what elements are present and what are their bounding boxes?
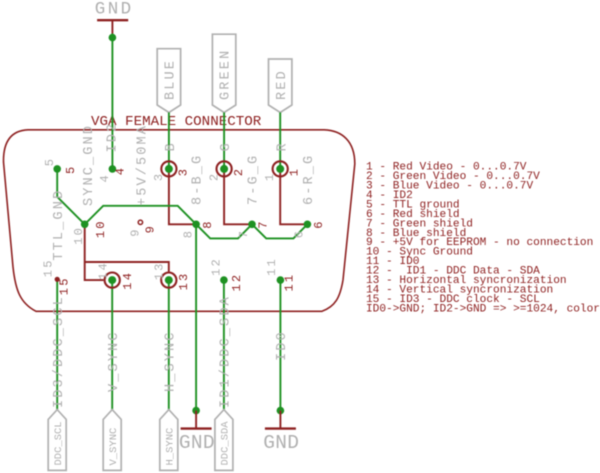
svg-text:14: 14 <box>96 261 110 280</box>
svg-text:B: B <box>164 141 179 151</box>
net flag label H_SYNC <box>160 410 178 471</box>
net flag label DDC_SCL <box>48 410 66 471</box>
svg-text:H_SYNC: H_SYNC <box>164 428 176 466</box>
svg-text:8: 8 <box>181 229 195 238</box>
pin 2 socket ring <box>220 165 228 173</box>
svg-text:GREEN: GREEN <box>219 49 234 100</box>
wire net R from RED flag to pin 1 <box>279 113 281 169</box>
junction pin 7 <box>248 221 256 229</box>
svg-text:G: G <box>219 141 234 151</box>
junction pin 8 <box>192 221 200 229</box>
net flag label GREEN <box>212 34 235 112</box>
svg-text:ID3/DDC_SCL: ID3/DDC_SCL <box>52 295 67 408</box>
junction at left bottom GND <box>192 407 200 415</box>
ground symbol GND (bottom right) <box>279 411 281 429</box>
svg-text:2: 2 <box>208 172 222 181</box>
svg-text:3: 3 <box>177 167 191 176</box>
symbol bus wire pin 10 to pins 14 and 13 <box>85 224 104 280</box>
svg-text:ID0->GND; ID2->GND => >=1024,: ID0->GND; ID2->GND => >=1024, color <box>366 303 600 315</box>
junction pin 10 <box>81 221 89 229</box>
svg-text:13: 13 <box>153 261 167 280</box>
svg-text:RED: RED <box>275 69 290 100</box>
svg-text:15: 15 <box>42 258 56 277</box>
svg-text:1: 1 <box>263 172 277 181</box>
wire shield run pin 7 to pin 6 <box>252 224 307 238</box>
svg-text:ID0: ID0 <box>275 330 290 361</box>
wire net TTL_GND pin 5 to pin 10 <box>57 169 84 224</box>
svg-text:15: 15 <box>57 276 71 295</box>
svg-text:11: 11 <box>283 273 297 292</box>
svg-text:ID2: ID2 <box>106 122 121 153</box>
svg-text:6-R_G: 6-R_G <box>302 154 317 205</box>
junction at right bottom GND <box>277 407 285 415</box>
net flag label V_SYNC <box>103 410 121 471</box>
svg-text:1: 1 <box>288 167 302 176</box>
svg-text:GND: GND <box>179 432 215 454</box>
svg-text:7: 7 <box>237 229 251 238</box>
svg-text:TTL_GND: TTL_GND <box>52 189 67 261</box>
junction pin 4 <box>109 165 117 173</box>
wire net G from GREEN flag to pin 2 <box>223 113 225 169</box>
svg-text:5: 5 <box>64 165 78 174</box>
wire net SYNC_GND from top GND to pin 4 <box>111 34 113 169</box>
wire net ID0 pin 11 to bottom GND <box>279 280 281 411</box>
svg-text:DDC_SCL: DDC_SCL <box>53 421 65 465</box>
ground symbol GND (bottom left) <box>195 411 197 429</box>
svg-text:4: 4 <box>98 173 112 182</box>
pin description legend text block <box>366 162 600 316</box>
pin 3 socket ring <box>165 165 173 173</box>
net flag label BLUE <box>157 49 180 113</box>
junction pin 5 <box>53 165 61 173</box>
svg-text:ID1/DDC_SDA: ID1/DDC_SDA <box>219 295 234 408</box>
pin 13 socket ring <box>165 276 173 284</box>
svg-text:10: 10 <box>72 226 86 245</box>
net flag label DDC_SDA <box>215 410 233 471</box>
svg-text:7: 7 <box>257 219 271 228</box>
svg-text:9: 9 <box>129 227 143 236</box>
svg-text:6: 6 <box>293 229 307 238</box>
connector body outline (VGA female DB15 shell) <box>3 130 354 311</box>
svg-text:10: 10 <box>94 219 108 238</box>
svg-text:8: 8 <box>201 219 215 228</box>
wire sync-ground run pin 10 to pin 8 <box>85 206 196 225</box>
svg-text:14: 14 <box>121 271 135 290</box>
svg-text:3: 3 <box>152 172 166 181</box>
pin 9 open connection point <box>138 220 142 224</box>
wire net ID3/DDC_SCL pin 15 to DDC_SCL flag <box>56 280 58 410</box>
svg-text:V_SYNC: V_SYNC <box>107 330 122 392</box>
svg-text:2: 2 <box>232 167 246 176</box>
svg-text:SYNC_GND: SYNC_GND <box>82 124 97 206</box>
svg-text:+5V/50MA: +5V/50MA <box>135 124 150 206</box>
svg-text:12: 12 <box>230 273 244 292</box>
symbol wire pin 3 shield to pin 8 <box>169 169 196 224</box>
svg-text:BLUE: BLUE <box>164 59 179 100</box>
svg-text:H_SYNC: H_SYNC <box>163 330 178 392</box>
wire net H_SYNC pin 13 to H_SYNC flag <box>168 280 170 410</box>
svg-text:V_SYNC: V_SYNC <box>108 428 120 466</box>
wire pin 8 down to bottom GND <box>195 224 197 410</box>
svg-text:R: R <box>275 141 290 151</box>
svg-text:12: 12 <box>210 257 224 276</box>
junction pin 6 <box>304 221 312 229</box>
wire shield run pin 8 to pin 7 <box>196 224 252 238</box>
svg-text:9: 9 <box>144 224 158 233</box>
wire net B from BLUE flag to pin 3 <box>168 113 170 169</box>
svg-text:GND: GND <box>95 0 134 20</box>
pin 14 socket ring <box>108 276 116 284</box>
svg-text:4: 4 <box>114 166 128 175</box>
svg-text:DDC_SDA: DDC_SDA <box>220 421 232 466</box>
pin 1 socket ring <box>276 165 284 173</box>
svg-text:5: 5 <box>43 157 57 166</box>
junction pin 11 <box>277 276 285 284</box>
svg-text:6: 6 <box>312 219 326 228</box>
ground symbol GND (top) <box>97 19 128 21</box>
symbol wire pin 2 shield to pin 7 <box>224 169 252 224</box>
junction pin 12 <box>220 276 228 284</box>
svg-text:11: 11 <box>265 257 279 276</box>
svg-text:13: 13 <box>177 272 191 291</box>
net flag label RED <box>269 59 292 113</box>
svg-text:8-B_G: 8-B_G <box>191 154 206 205</box>
pin 15 connection point <box>55 277 60 282</box>
svg-text:7-G_G: 7-G_G <box>247 154 262 205</box>
svg-text:GND: GND <box>263 432 299 454</box>
junction on GND wire <box>109 34 117 42</box>
symbol wire pin 1 shield to pin 6 <box>280 169 307 224</box>
wire net ID1/DDC_SDA pin 12 to DDC_SDA flag <box>223 280 225 410</box>
wire net V_SYNC pin 14 to V_SYNC flag <box>111 280 113 410</box>
